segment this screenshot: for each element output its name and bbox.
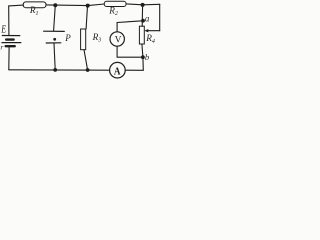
capacitor P bottom plate xyxy=(46,42,61,44)
battery cell1 short plate xyxy=(6,38,13,40)
svg-text:b: b xyxy=(145,52,149,62)
wire bottom left segment xyxy=(9,69,110,71)
wire slider arm with arrowhead into R4 xyxy=(147,30,159,32)
wire left edge bottom xyxy=(8,47,10,69)
node junction R3-branch top xyxy=(86,4,90,8)
battery E,r cell1 long plate xyxy=(2,35,20,37)
node a xyxy=(141,19,145,23)
node b xyxy=(141,55,145,59)
svg-text:E: E xyxy=(0,25,6,36)
resistor R1 xyxy=(23,2,46,8)
svg-text:A: A xyxy=(114,66,121,77)
wire P-branch bottom lead xyxy=(54,43,55,70)
node junction P-branch top xyxy=(53,3,57,7)
ammeter A xyxy=(110,62,126,78)
capacitor P top plate xyxy=(44,30,65,32)
wire P-branch top lead xyxy=(54,5,56,31)
node junction P-branch bottom xyxy=(53,68,57,72)
node junction R3-branch bottom xyxy=(86,68,90,72)
svg-text:P: P xyxy=(64,33,71,43)
wire R3-branch bottom lead xyxy=(84,50,88,70)
resistor R2 xyxy=(104,1,126,6)
node junction R4-branch top xyxy=(141,3,145,7)
battery cell2 long plate xyxy=(2,42,21,44)
wire left edge top xyxy=(8,6,10,35)
svg-text:r: r xyxy=(0,42,3,51)
svg-text:V: V xyxy=(115,36,122,46)
charged particle in capacitor P xyxy=(53,38,56,41)
wire R4 top lead xyxy=(141,5,143,26)
wire top-left segment xyxy=(9,4,24,7)
wire bottom right segment xyxy=(125,69,143,71)
resistor R3 xyxy=(81,29,86,50)
wire top-middle segment xyxy=(46,4,104,6)
wire R4 bottom lead xyxy=(142,44,143,70)
battery cell2 short plate xyxy=(6,45,15,47)
resistor R4 (rheostat body) xyxy=(139,26,144,44)
svg-text:a: a xyxy=(145,14,150,24)
wire top-right segment xyxy=(126,3,160,6)
wire R3-branch top lead xyxy=(86,6,87,29)
wire right edge down to slider xyxy=(159,4,161,30)
wire voltmeter top lead xyxy=(117,21,143,32)
voltmeter V xyxy=(110,32,124,46)
wire voltmeter bottom lead xyxy=(117,46,143,57)
